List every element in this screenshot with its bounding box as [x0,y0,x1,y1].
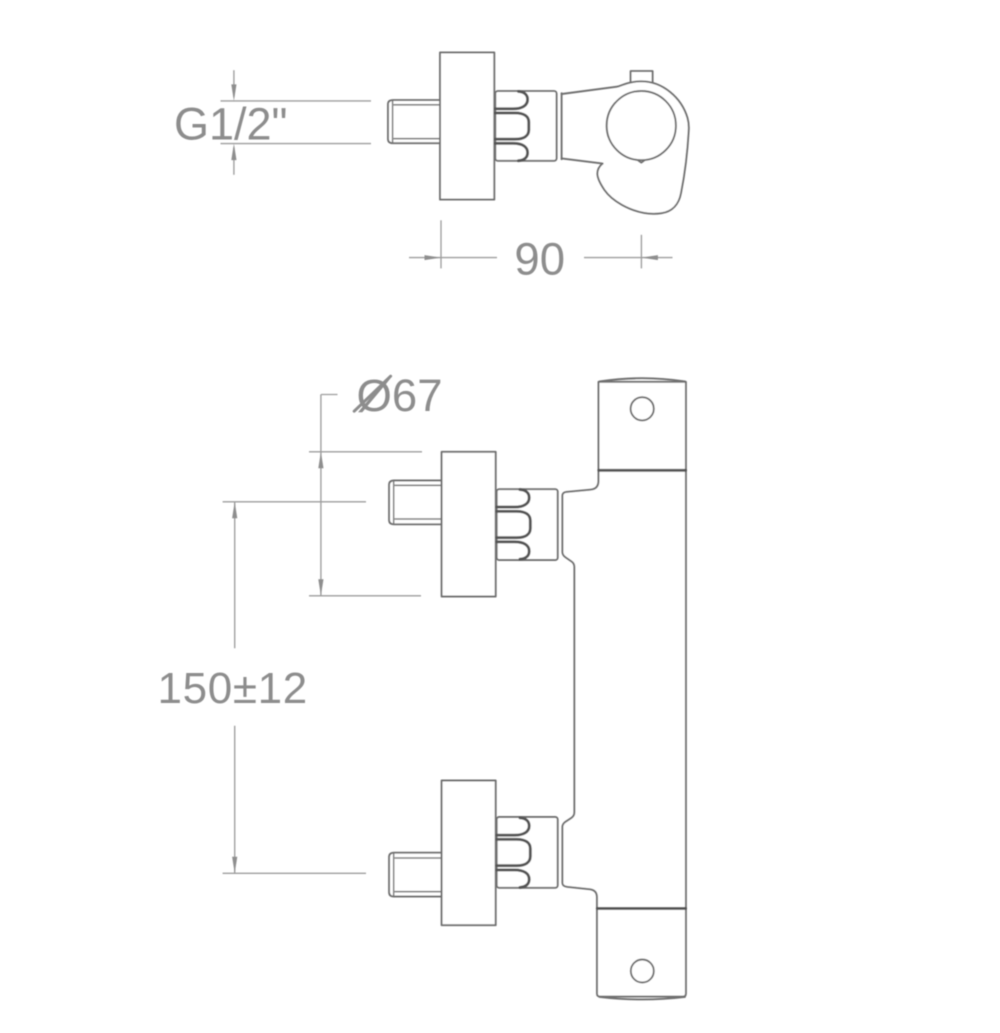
upper inlet: hex nut top facet [497,490,530,508]
dimension 90: left extension line [440,220,442,268]
front view: top mounting hole [631,397,654,420]
front view: valve body and mounting plates outline [562,382,686,997]
dimension diameter 67: down arrow [318,579,323,596]
upper inlet: wall flange [442,452,496,597]
top view: nipple chamfer line [392,101,394,143]
top view: nipple thread relief line lower [394,138,442,140]
top view: threaded inlet nipple G1/2 [388,100,441,143]
upper inlet: hex nut [497,489,558,560]
dimension 150+-12: upper extension line [223,501,366,503]
front view: bottom plate top thick edge [597,907,685,910]
front view: upper inlet assembly [389,452,558,597]
dimension diameter 67: up arrow [318,452,323,469]
top view: handle knob circle [607,91,676,160]
top view: body cone left edge [561,93,563,159]
top view: nipple thread relief line upper [394,104,442,106]
upper inlet: threaded nipple [389,481,442,525]
dimension 90: left dimension line with right arrow [409,257,497,259]
top view: hex nut [495,91,556,161]
dimension 150+-12: leader lower segment [234,726,236,874]
front view: bottom mounting hole [631,960,654,983]
top view: hex nut top facet [495,91,527,108]
upper inlet: nipple chamfer line [393,481,395,524]
top view: lever handle body (egg shaped) [597,81,688,213]
top view: body cone top edge [562,87,618,94]
dimension 150+-12: lower extension line [223,872,366,874]
top view: hex nut bottom facet [495,143,527,160]
svg-text:150±12: 150±12 [158,664,308,713]
dimension diameter 67: leader line [320,395,322,596]
dimension 90: right extension line [640,235,642,269]
dimension 150+-12: leader upper segment [234,502,236,649]
upper inlet: hex nut middle facet [497,511,531,537]
svg-text:90: 90 [514,233,565,284]
top view: hex nut middle facet [495,113,529,139]
dimension 150+-12: down arrow [232,857,237,874]
dimension diameter 67: top tick to label [321,394,338,396]
top view: handle top tab button [631,71,653,85]
front view: bottom plate rolled bottom edge [600,997,685,1000]
top view: knob bottom notch [638,161,644,163]
dimension label diameter slash overlay [354,376,390,411]
upper inlet: hex nut bottom facet [497,542,530,559]
dimension G1/2: upper extension line [221,100,372,102]
front view: top plate bottom thick edge [599,469,686,472]
dimension diameter 67: lower extension line [309,595,421,597]
upper inlet: thread relief line lower [395,518,442,520]
dimension G1/2: lower extension line [221,143,372,145]
dimension 150+-12: up arrow [232,502,237,519]
svg-text:G1/2": G1/2" [174,98,288,149]
top view: body cone bottom edge [562,158,603,163]
dimension diameter 67: upper extension line [309,451,422,453]
dimension G1/2: upper leader with down arrow [233,70,235,97]
dimension 90: right dimension line with left arrow [584,257,673,259]
dimension G1/2: lower leader with up arrow [233,148,235,175]
upper inlet: thread relief line upper [395,484,442,486]
front view: top plate rolled top edge [600,378,685,381]
front view: lower inlet assembly (mirrored copy) [389,781,558,926]
top view: wall flange / escutcheon plate [440,52,494,199]
